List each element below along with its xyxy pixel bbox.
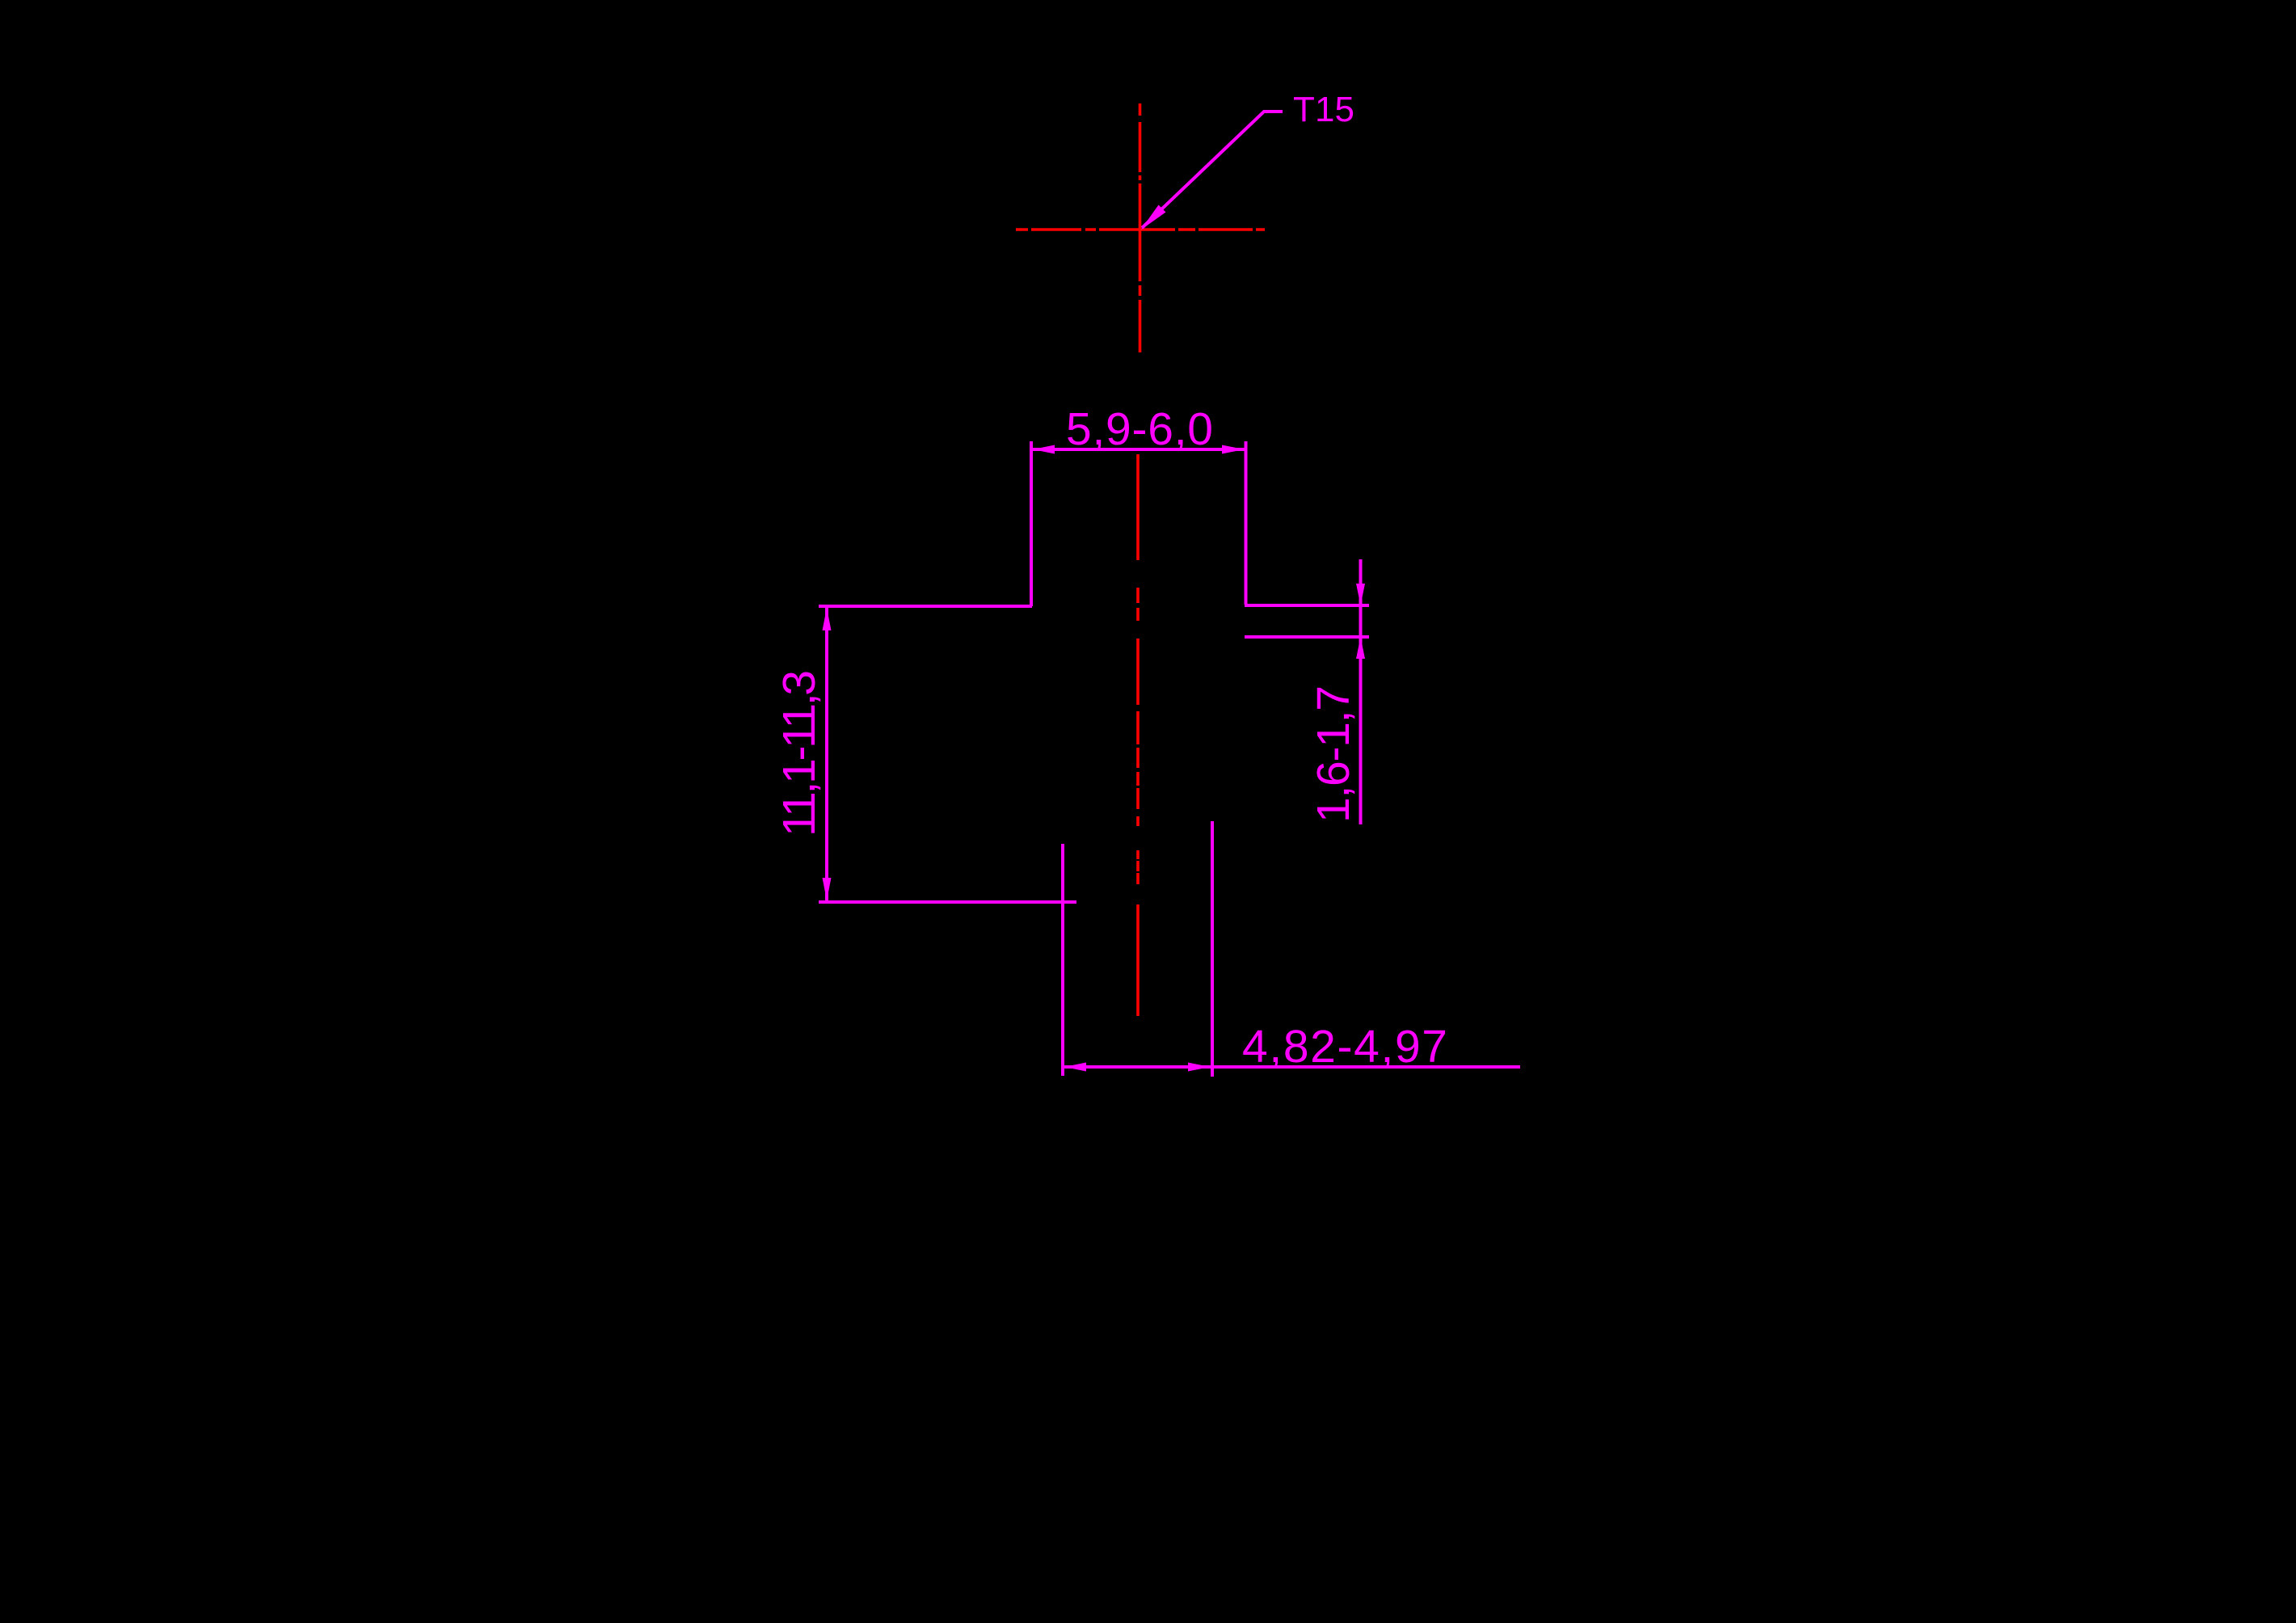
part edge: bottom stem left vertical <box>1061 844 1064 1076</box>
arrowhead bottom of 11.1-11.3 <box>823 878 832 900</box>
part centerline vertical (red, dash-dot) <box>1136 454 1140 1016</box>
part edge: right step horizontal <box>1245 635 1369 639</box>
svg-text:T15: T15 <box>1293 90 1354 129</box>
centerline crosshair horizontal (red, dash-dot) <box>1016 228 1265 231</box>
arrowhead down of 1.6-1.7 <box>1356 584 1365 605</box>
arrowhead right of 5.9-6.0 <box>1222 445 1245 454</box>
part edge: right shoulder horizontal <box>1245 604 1369 607</box>
leader line T15 <box>1142 112 1283 228</box>
dimension line 4.82-4.97 <box>1063 1065 1520 1069</box>
svg-text:1,6-1,7: 1,6-1,7 <box>1308 685 1359 823</box>
arrowhead right of 4.82-4.97 <box>1188 1063 1210 1072</box>
svg-text:11,1-11,3: 11,1-11,3 <box>773 670 825 837</box>
part edge: top stem right vertical <box>1245 441 1248 605</box>
arrowhead up of 1.6-1.7 <box>1356 637 1365 659</box>
part edge: bottom stem right vertical <box>1211 821 1214 1077</box>
arrowhead left of 5.9-6.0 <box>1033 445 1055 454</box>
extension line bottom left <box>819 900 1076 904</box>
arrowhead left of 4.82-4.97 <box>1064 1063 1086 1072</box>
dimension line 5.9-6.0 <box>1031 448 1246 451</box>
part edge: left shoulder horizontal / extension line <box>819 605 1032 608</box>
arrowhead top of 11.1-11.3 <box>823 608 832 630</box>
svg-text:4,82-4,97: 4,82-4,97 <box>1242 1021 1447 1073</box>
part edge: top stem left vertical <box>1030 441 1033 606</box>
dimension line 1.6-1.7 vertical <box>1359 559 1363 824</box>
centerline crosshair vertical (red, dash-dot) <box>1139 103 1142 352</box>
dimension line 11.1-11.3 vertical <box>825 606 828 900</box>
leader arrowhead <box>1141 205 1166 230</box>
svg-text:5,9-6,0: 5,9-6,0 <box>1066 403 1213 455</box>
